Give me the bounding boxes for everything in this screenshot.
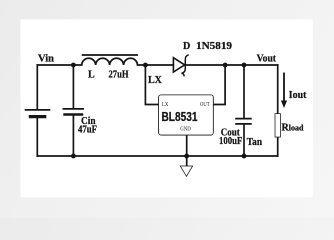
svg-text:27uH: 27uH: [109, 69, 129, 80]
svg-text:LX: LX: [148, 75, 163, 86]
node junction dots: [71, 63, 246, 159]
wire diode-to-Vout segment: [185, 64, 277, 66]
svg-text:1N5819: 1N5819: [196, 41, 232, 52]
capacitor Cout 100uF Tan: [219, 119, 262, 149]
wire Cout top lead: [243, 65, 245, 118]
svg-text:Tan: Tan: [247, 137, 263, 148]
white schematic panel: [20, 19, 312, 197]
wire Cin top lead: [72, 65, 74, 108]
svg-text:47uF: 47uF: [78, 125, 97, 136]
diode D 1N5819 (Schottky): [173, 41, 232, 76]
wire battery positive lead: [36, 65, 38, 109]
svg-text:Iout: Iout: [289, 90, 307, 101]
inductor L 27uH: [82, 55, 138, 80]
wire Cout bottom lead: [243, 125, 245, 157]
svg-text:L: L: [88, 69, 95, 80]
wire battery negative lead: [36, 118, 38, 156]
svg-text:GND: GND: [180, 125, 191, 132]
wire inductor-to-diode segment: [138, 64, 174, 66]
resistor Rload: [275, 114, 304, 137]
ground: [181, 166, 192, 175]
svg-text:OUT: OUT: [200, 101, 210, 108]
Iout current arrow: [281, 73, 307, 109]
capacitor Cin 47uF: [63, 109, 98, 136]
svg-text:Vin: Vin: [38, 54, 54, 65]
svg-text:D: D: [183, 41, 190, 52]
wire LX pin lead: [145, 65, 159, 105]
wire Cin bottom lead: [72, 115, 74, 156]
wire Rload bottom lead: [277, 137, 279, 156]
wire GND pin lead: [186, 135, 188, 166]
svg-text:Vout: Vout: [257, 54, 277, 65]
svg-text:Rload: Rload: [282, 122, 304, 133]
battery (input source): [25, 110, 51, 117]
wire top rail left (Vin to inductor): [37, 64, 81, 66]
op-amp U1 BL8531 regulator IC: [159, 95, 213, 134]
svg-text:BL8531: BL8531: [162, 109, 198, 124]
wire Vout down lead to Rload: [277, 65, 279, 114]
svg-text:LX: LX: [162, 101, 169, 108]
wire OUT pin lead: [213, 65, 225, 105]
svg-text:100uF: 100uF: [219, 136, 242, 147]
wire bottom ground rail: [37, 155, 277, 157]
